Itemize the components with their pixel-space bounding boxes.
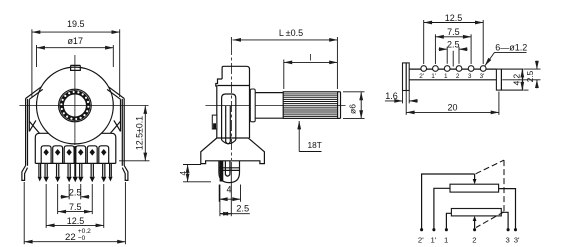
svg-text:+0.2: +0.2 bbox=[78, 228, 91, 235]
svg-text:3: 3 bbox=[468, 73, 472, 80]
hole labels bbox=[419, 73, 484, 80]
shaft knurled section 18T bbox=[283, 92, 340, 119]
dimension 4.2 bbox=[512, 69, 529, 90]
svg-text:1.6: 1.6 bbox=[385, 91, 398, 101]
svg-text:1': 1' bbox=[431, 73, 436, 80]
svg-text:2.5: 2.5 bbox=[236, 204, 249, 214]
dimension 12.5 bottom bbox=[46, 184, 104, 228]
resistor element lower gang bbox=[451, 209, 501, 216]
svg-text:ø6: ø6 bbox=[348, 104, 358, 114]
svg-text:2: 2 bbox=[472, 235, 476, 244]
leader 18T bbox=[299, 121, 322, 152]
housing lower body outline bbox=[35, 133, 116, 163]
dimension Ø17 bbox=[37, 36, 114, 67]
center mark bbox=[452, 51, 454, 67]
bracket side tab bbox=[212, 115, 217, 129]
wire terminal 3 to lower right end bbox=[501, 212, 508, 229]
wire terminal 2 to lower wiper bbox=[473, 216, 477, 230]
left bent tab bbox=[403, 63, 410, 91]
dimension 7.5 (top view) bbox=[435, 27, 471, 64]
right mounting bracket bbox=[107, 87, 128, 181]
svg-text:2.5: 2.5 bbox=[447, 39, 460, 49]
reference centerline vertical bbox=[230, 44, 232, 160]
shaft hole bbox=[63, 94, 86, 117]
svg-text:2': 2' bbox=[419, 73, 424, 80]
svg-text:4: 4 bbox=[178, 171, 188, 176]
svg-text:12.5: 12.5 bbox=[67, 216, 85, 226]
svg-text:6—ø1.2: 6—ø1.2 bbox=[495, 43, 527, 53]
shaft smooth section bbox=[255, 93, 283, 119]
svg-text:7.5: 7.5 bbox=[69, 202, 82, 212]
svg-text:7.5: 7.5 bbox=[447, 27, 460, 37]
svg-text:2.5: 2.5 bbox=[69, 187, 82, 197]
dimension l bbox=[284, 53, 338, 89]
pin lug 4 bbox=[76, 146, 86, 183]
body outline bbox=[216, 66, 250, 138]
center support pin bbox=[73, 146, 78, 182]
bracket bar bbox=[409, 69, 496, 80]
right end block bbox=[496, 69, 522, 90]
dimension 1.6 bbox=[385, 91, 418, 104]
gang linkage dashed bbox=[476, 160, 504, 227]
pin lug 1 bbox=[41, 146, 51, 183]
upper wiper arrow bbox=[473, 174, 477, 184]
knurled ring band bbox=[61, 92, 88, 119]
pin lug 6 bbox=[99, 146, 109, 183]
wire terminal 3' to upper right end bbox=[499, 189, 516, 230]
svg-text:L ±0.5: L ±0.5 bbox=[279, 28, 303, 38]
wire terminal 2' to upper wiper bbox=[422, 174, 475, 230]
terminal holes 6-Ø1.2 bbox=[421, 66, 486, 72]
svg-text:12.5±0.1: 12.5±0.1 bbox=[134, 116, 144, 150]
svg-text:1: 1 bbox=[444, 73, 448, 80]
dimension 2.5 (top view) bbox=[439, 39, 468, 64]
dimension 4 vertical (side) bbox=[178, 165, 211, 182]
dimension 2.5 (side pin to axis) bbox=[220, 162, 250, 216]
pin lug 2 bbox=[53, 146, 63, 183]
dimension L±0.5 bbox=[231, 28, 337, 89]
svg-text:2: 2 bbox=[456, 73, 460, 80]
dimension 12.5±0.1 bbox=[119, 106, 150, 161]
pin lug 5 bbox=[87, 146, 97, 183]
wire terminal 1 to lower left end bbox=[446, 213, 451, 229]
terminal labels bbox=[418, 235, 520, 244]
svg-text:2': 2' bbox=[418, 235, 424, 244]
svg-text:ø17: ø17 bbox=[67, 36, 83, 46]
resistor element upper gang bbox=[450, 184, 499, 192]
svg-text:19.5: 19.5 bbox=[67, 19, 85, 29]
svg-text:4: 4 bbox=[226, 184, 231, 194]
dimension 22 +0.2/-0 bbox=[24, 182, 125, 244]
svg-text:20: 20 bbox=[447, 102, 457, 112]
threaded collar bbox=[250, 89, 255, 122]
body outer circle bbox=[37, 67, 114, 144]
housing side tab pin left bbox=[38, 163, 42, 181]
wire terminal 1' to upper left end bbox=[434, 188, 450, 229]
dimension 7.5 bottom bbox=[58, 184, 93, 214]
vertical centerline bbox=[74, 55, 76, 145]
shaft axis centerline bbox=[206, 105, 346, 107]
skirt flange bbox=[201, 138, 265, 164]
dimension 2.5 bottom bbox=[61, 184, 90, 199]
svg-text:3': 3' bbox=[514, 235, 520, 244]
left mounting bracket bbox=[22, 87, 43, 181]
svg-text:2.5: 2.5 bbox=[525, 70, 535, 82]
dimension 20 bbox=[406, 91, 499, 115]
svg-text:3': 3' bbox=[480, 73, 485, 80]
dimension 12.5 (top view) bbox=[424, 13, 484, 64]
dimension Ø6 bbox=[343, 92, 365, 119]
svg-text:12.5: 12.5 bbox=[445, 13, 463, 23]
svg-text:22: 22 bbox=[65, 232, 76, 243]
housing side tab pin right bbox=[108, 163, 112, 181]
inner slot lug bbox=[222, 94, 236, 144]
svg-text:1: 1 bbox=[444, 235, 448, 244]
terminal dots bbox=[420, 228, 517, 231]
anti-rotation notch tab bbox=[71, 65, 81, 70]
dimension 19.5 bbox=[32, 19, 120, 97]
dimension 4 horizontal (side pin) bbox=[219, 184, 240, 202]
leader 6-Ø1.2 bbox=[485, 43, 527, 66]
svg-text:3: 3 bbox=[506, 235, 510, 244]
bottom pcb pin (side) bbox=[219, 161, 240, 183]
svg-text:18T: 18T bbox=[308, 140, 322, 150]
dimension 2.5 (bar thickness) bbox=[502, 61, 540, 89]
horizontal centerline bbox=[19, 105, 148, 107]
svg-text:1': 1' bbox=[431, 235, 437, 244]
svg-text:l: l bbox=[310, 53, 312, 63]
knurl dots bbox=[60, 91, 89, 120]
bushing outer ring bbox=[59, 89, 92, 122]
pin lug 3 bbox=[64, 146, 74, 183]
svg-text:−0: −0 bbox=[78, 235, 86, 242]
